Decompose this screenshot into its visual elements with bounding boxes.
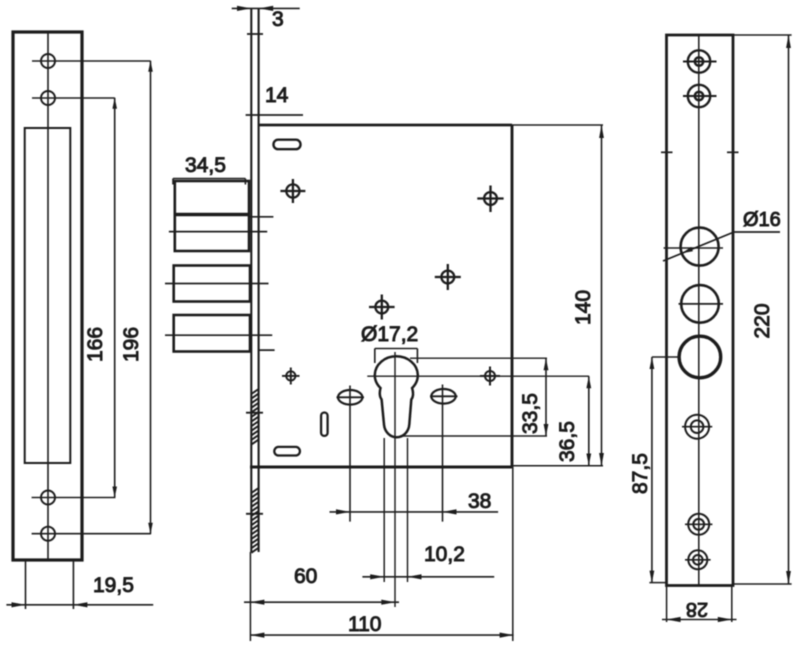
left plate hole 3 <box>41 491 55 505</box>
keyhole left tangent extension <box>383 438 385 582</box>
dimension line 36.5 <box>588 376 590 465</box>
lock body right edge <box>511 125 514 467</box>
svg-text:14: 14 <box>265 84 289 107</box>
crosshair hole C <box>435 264 461 290</box>
dim 33.5 arrows <box>544 358 549 436</box>
svg-text:60: 60 <box>294 565 317 588</box>
dimension line 33.5 <box>545 358 547 436</box>
svg-text:10,2: 10,2 <box>424 543 465 566</box>
dimension line 166 <box>114 98 116 498</box>
svg-text:166: 166 <box>84 327 107 362</box>
dim 110 arrow left <box>250 633 264 638</box>
circle 2 cross line <box>679 303 724 305</box>
strip left edge extension down <box>249 552 251 641</box>
bolt group 2 outline <box>174 266 250 302</box>
bolt group 1 thick line <box>175 213 249 216</box>
forend strip right edge <box>258 8 260 552</box>
dim 87.5 arrows <box>650 357 655 583</box>
dim 3 arrow right <box>259 6 273 11</box>
svg-text:140: 140 <box>572 290 595 325</box>
oval right cross line <box>430 395 458 397</box>
lock body bottom edge <box>250 466 512 469</box>
dimension line 60 <box>244 601 399 603</box>
svg-text:196: 196 <box>120 327 143 362</box>
right plate hole 1 <box>683 50 717 72</box>
right plate hole 2 <box>683 85 717 107</box>
left strike plate outline <box>13 32 82 560</box>
plate edge tick left <box>661 151 673 153</box>
crosshair hole D <box>369 295 395 320</box>
screw post oval right <box>431 389 455 404</box>
target hole 3 <box>685 550 711 569</box>
dimension line 19.5 <box>6 604 153 606</box>
dimension line d17.2 <box>375 348 418 350</box>
dimension line 38 <box>330 511 499 513</box>
svg-text:110: 110 <box>348 613 381 636</box>
dim 19.5 arrow right <box>73 602 87 607</box>
svg-text:3: 3 <box>272 8 284 31</box>
crosshair hole B <box>477 186 503 213</box>
screw post oval left <box>338 390 362 405</box>
target hole 2 <box>685 514 712 535</box>
28 extension line left <box>666 586 668 622</box>
dimension line 220 <box>788 35 790 584</box>
dim 38 arrow right <box>443 509 457 514</box>
dim 110 arrow right <box>500 633 514 638</box>
oval right extension down <box>442 385 444 522</box>
87.5 top extension <box>652 356 679 358</box>
dim 220 arrows <box>786 35 791 584</box>
28 extension line right <box>731 586 733 622</box>
19.5 extension line left <box>25 560 27 609</box>
body bottom edge extension <box>512 465 603 467</box>
keyhole right tangent extension <box>407 438 409 582</box>
dimension line 196 <box>150 61 152 534</box>
right rail plate outline <box>667 35 734 586</box>
body right edge extension down <box>512 467 514 641</box>
d16 leader underline <box>734 231 780 233</box>
extension line hole4 to 196 dim <box>32 533 151 535</box>
87.5 bottom extension <box>649 582 666 584</box>
dim 60 arrow right <box>381 600 395 605</box>
svg-text:34,5: 34,5 <box>185 154 226 177</box>
bolt group 1 thick line extension <box>249 216 273 218</box>
left plate hole 2 <box>41 91 55 105</box>
dim 196 end arrows <box>148 61 153 534</box>
svg-text:87,5: 87,5 <box>629 453 652 494</box>
extension line hole1 to 196 dim <box>32 60 151 62</box>
big circle 1 <box>681 228 719 266</box>
circle 1 cross line <box>664 247 723 249</box>
strip joint tick <box>247 33 263 35</box>
reference line 33.5 bottom <box>400 435 547 437</box>
left plate hole 1 <box>41 54 55 68</box>
svg-text:19,5: 19,5 <box>93 574 134 597</box>
body horizontal centerline through keyhole <box>367 375 589 377</box>
dim 28 arrow left <box>667 617 681 622</box>
crosshair hole E <box>480 367 500 386</box>
dim 36.5 arrows <box>586 376 591 465</box>
svg-text:Ø16: Ø16 <box>743 209 781 231</box>
dim 10.2 arrow right <box>408 574 422 579</box>
big circle 2 <box>681 285 719 323</box>
lock body top edge <box>259 124 512 127</box>
d17.2 side extension right <box>416 349 418 364</box>
oval left cross line <box>337 396 365 398</box>
dimension line 10.2 <box>362 576 494 578</box>
dim 166 end arrows <box>112 98 117 498</box>
extension line hole2 to 166 dim <box>32 97 115 99</box>
dim 19.5 arrow left <box>12 602 26 607</box>
keyhole centerline <box>394 352 396 607</box>
dim 140 arrows <box>599 125 604 466</box>
big circle 3 <box>679 336 721 378</box>
svg-text:Ø17,2: Ø17,2 <box>361 323 418 346</box>
svg-text:38: 38 <box>468 490 491 513</box>
plate edge tick right <box>727 151 739 153</box>
dim 3 arrow left <box>237 6 251 11</box>
220 bottom extension <box>732 583 792 585</box>
crosshair hole F <box>282 368 300 385</box>
dim 28 arrow right <box>718 617 732 622</box>
strip tick lower 1 <box>246 412 263 414</box>
reference line 14 <box>246 114 303 116</box>
small vertical slot <box>321 413 328 436</box>
svg-text:28: 28 <box>686 598 708 620</box>
forend strip left edge <box>250 8 252 552</box>
right plate centerline <box>698 36 700 585</box>
target hole 1 <box>682 415 712 439</box>
svg-text:36,5: 36,5 <box>556 421 579 462</box>
19.5 extension line right <box>72 560 74 609</box>
stub line right of strip <box>259 349 275 351</box>
dimension line 110 <box>250 634 513 636</box>
bolt group 1 outline <box>175 181 249 251</box>
left plate hole 4 <box>41 527 55 541</box>
slot bottom-left of body <box>274 447 300 456</box>
bolt group 1 mid line <box>169 231 267 233</box>
bolt group 3 mid line <box>165 334 272 336</box>
svg-text:33,5: 33,5 <box>519 393 542 434</box>
dim 10.2 arrow left <box>370 574 384 579</box>
extension line hole3 to 166 dim <box>32 497 116 499</box>
dim 38 arrow left <box>336 509 350 514</box>
left plate centerline <box>47 33 49 559</box>
strip hatching <box>251 389 258 553</box>
dim 34.5 end ticks <box>173 179 245 185</box>
dim 60 arrow left <box>250 600 264 605</box>
slot top-left of body <box>274 140 301 150</box>
dimension line 34.5 <box>173 178 245 180</box>
bolt group 2 mid line <box>165 283 269 285</box>
dimension line 28 <box>662 619 737 621</box>
crosshair hole A <box>280 179 305 203</box>
reference line 33.5 top <box>410 357 547 359</box>
svg-text:220: 220 <box>751 303 774 338</box>
220 top extension <box>733 34 792 36</box>
oval left extension down <box>349 386 351 522</box>
dimension line 140 <box>601 125 603 466</box>
left plate inner slot <box>25 128 71 463</box>
dimension line 3 <box>232 7 300 9</box>
d16 leader diagonal <box>663 232 734 261</box>
euro cylinder keyhole <box>375 356 418 437</box>
strip tick lower 2 <box>246 513 263 515</box>
bolt group 3 outline <box>174 315 250 352</box>
d17.2 side extension left <box>374 349 376 364</box>
d16 leader arrowhead <box>682 247 693 253</box>
body top edge extension to 140 dim <box>512 124 603 126</box>
dimension line 87.5 <box>651 357 653 583</box>
